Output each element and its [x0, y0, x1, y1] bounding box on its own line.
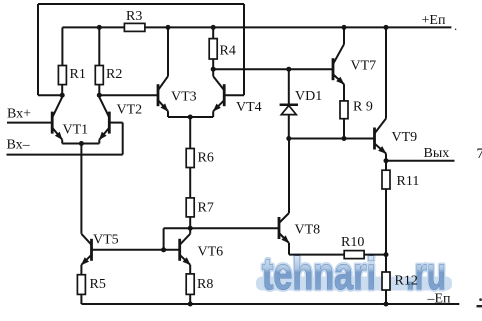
svg-text:VT8: VT8: [295, 223, 321, 238]
svg-text:R6: R6: [198, 151, 214, 166]
svg-text:R7: R7: [198, 201, 214, 216]
svg-text:R3: R3: [126, 9, 142, 24]
svg-text:VT1: VT1: [63, 123, 89, 138]
svg-text:R4: R4: [220, 44, 236, 59]
svg-text:R10: R10: [341, 235, 364, 250]
svg-text:7: 7: [477, 146, 482, 162]
svg-text:R8: R8: [197, 277, 213, 292]
svg-text:VT2: VT2: [117, 103, 143, 118]
svg-text:VT9: VT9: [392, 130, 418, 145]
svg-text:VT4: VT4: [236, 100, 262, 115]
svg-text:VT6: VT6: [198, 245, 224, 260]
svg-text:R12: R12: [395, 274, 418, 289]
svg-text:VD1: VD1: [295, 89, 322, 104]
svg-text:.: .: [454, 18, 457, 33]
svg-text:VT3: VT3: [171, 90, 197, 105]
svg-text:+Еп: +Еп: [422, 13, 446, 28]
svg-text:VT7: VT7: [351, 59, 377, 74]
svg-text:R2: R2: [106, 67, 122, 82]
svg-text:Вх–: Вх–: [7, 138, 31, 153]
svg-text:Вх+: Вх+: [7, 107, 31, 122]
svg-text:Вых: Вых: [424, 146, 450, 161]
svg-text:R11: R11: [397, 174, 420, 189]
svg-text:VT5: VT5: [93, 233, 119, 248]
svg-text:R 9: R 9: [353, 100, 373, 115]
svg-text:R1: R1: [70, 67, 86, 82]
svg-text:R5: R5: [90, 277, 106, 292]
svg-text:–Еп: –Еп: [427, 292, 452, 307]
